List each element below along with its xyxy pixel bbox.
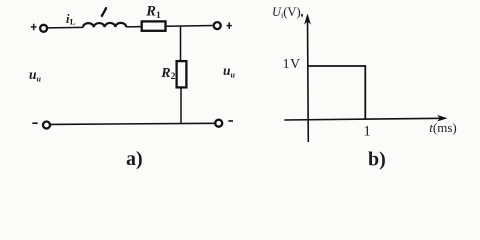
resistor R2 (177, 61, 187, 87)
svg-text:Ui(V): Ui(V) (272, 5, 301, 20)
node: top-left terminal circle (40, 25, 47, 32)
axis t horizontal with arrow (284, 115, 447, 122)
wire: R2 branch lower (180, 89, 182, 125)
resistor R1 (142, 21, 166, 30)
inductor l coil (83, 23, 126, 28)
svg-text:a): a) (126, 148, 143, 170)
svg-text:t(ms): t(ms) (429, 120, 456, 135)
terminal minus bottom-left (32, 122, 37, 124)
waveform: rectangular pulse (308, 66, 366, 119)
node: bottom-right terminal circle (215, 120, 222, 127)
wire: bottom rail (50, 123, 215, 124)
node: bottom-left terminal circle (43, 122, 50, 129)
node: top-right terminal circle (214, 22, 221, 29)
terminal plus top-left (31, 24, 37, 31)
svg-text:1V: 1V (283, 56, 301, 71)
axis Ui vertical with arrow (304, 14, 311, 143)
svg-text:1: 1 (364, 124, 371, 140)
svg-text:b): b) (368, 148, 386, 170)
wire: R2 branch upper (180, 26, 182, 61)
terminal minus bottom-right (228, 120, 233, 122)
label l inductance value (102, 8, 106, 16)
terminal plus top-right (227, 22, 232, 29)
wire top rail: terminal to inductor (48, 26, 84, 29)
wire: R1 to junction to top-right terminal (167, 25, 214, 28)
wire: inductor to R1 (126, 26, 141, 28)
speck after Ui(V) label (301, 14, 303, 17)
